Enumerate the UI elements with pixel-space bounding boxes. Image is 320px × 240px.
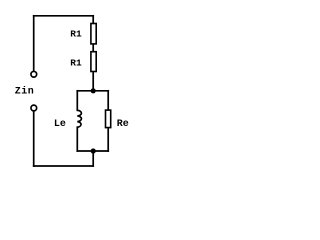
wire R1 to top rail [92,72,94,91]
resistor R1 (upper) [91,24,96,44]
resistor Re [106,110,111,128]
node junction dot top [91,88,96,93]
wire between R1 and R1 [92,45,94,51]
wire top horizontal [34,15,93,17]
svg-text:R1: R1 [70,29,82,40]
svg-text:Re: Re [117,119,129,130]
terminal upper (Zin port) [31,71,37,77]
wire below Re [107,128,109,151]
wire bottom rail of parallel section [77,150,108,152]
node junction dot bottom [91,148,96,153]
svg-text:Zin: Zin [15,86,35,98]
resistor R1 (lower) [91,52,96,72]
wire right branch to Re [107,91,109,110]
svg-text:R1: R1 [70,58,82,69]
wire left upper vertical [33,16,35,71]
wire top rail of parallel section [77,90,108,92]
wire stub below bottom junction [92,151,94,166]
wire left lower vertical [33,112,35,166]
wire below coil [76,127,78,151]
wire left branch down to coil [76,91,78,111]
wire right vertical into R1 [92,16,94,23]
terminal lower (Zin port) [31,105,37,111]
inductor Le coil [77,110,81,127]
svg-text:Le: Le [54,119,66,130]
wire bottom horizontal [34,165,93,167]
